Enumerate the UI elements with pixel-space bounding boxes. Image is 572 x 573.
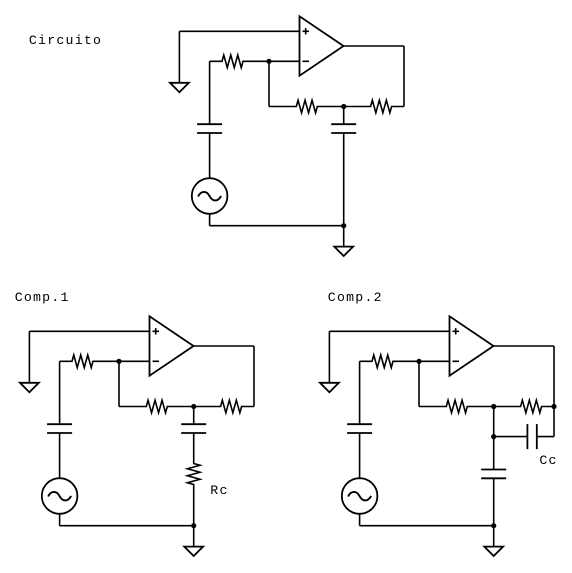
wire output U2 <box>194 345 255 347</box>
svg-text:Cc: Cc <box>539 453 557 468</box>
wire output U3 <box>494 345 555 347</box>
capacitor C1 U1 <box>197 123 222 125</box>
node inverting input U2 <box>116 359 121 364</box>
wire C2 to rail U3 <box>493 478 495 525</box>
wire inverting node down U3 <box>418 361 420 406</box>
wire feedback right up U3 <box>553 346 555 407</box>
wire bottom rail U1 <box>210 225 344 227</box>
wire source to rail U1 <box>209 214 211 226</box>
wire tap to Cc <box>494 436 528 438</box>
wire C1 to source U2 <box>59 433 61 478</box>
resistor R2 (feedback left) U2 <box>119 400 194 413</box>
wire node to C2 U2 <box>193 407 195 425</box>
node inverting input U1 <box>266 59 271 64</box>
wire tap to C2 U3 <box>493 437 495 470</box>
wire non-inverting input U2 <box>29 330 149 332</box>
ground (bottom) U1 <box>334 247 353 256</box>
svg-text:Comp.2: Comp.2 <box>328 290 383 305</box>
resistor R1 (input) U3 <box>360 355 419 368</box>
wire inverting node down U1 <box>268 61 270 106</box>
resistor R3 (feedback right) U2 <box>194 400 254 413</box>
node inverting input U3 <box>416 359 421 364</box>
op-amp U2 <box>150 316 194 375</box>
wire bottom rail U2 <box>60 525 194 527</box>
wire source to rail U2 <box>59 514 61 526</box>
capacitor C2 U2 <box>181 423 206 425</box>
capacitor C1 U3 <box>347 423 372 425</box>
ground (non-inverting input) U1 <box>170 83 189 92</box>
capacitor C2 U1 <box>331 123 356 125</box>
wire node to C2 U1 <box>343 107 345 125</box>
wire R1 to C1 U2 <box>59 361 61 424</box>
wire feedback right up U1 <box>403 46 405 107</box>
source V3 (sine) <box>342 478 378 514</box>
wire inverting input U2 <box>119 360 150 362</box>
wire non-inverting input U3 <box>329 330 449 332</box>
wire ground drop U3 <box>328 331 330 383</box>
wire bottom rail U3 <box>360 525 494 527</box>
wire R1 to C1 U3 <box>359 361 361 424</box>
wire R1 to C1 U1 <box>209 61 211 124</box>
wire C1 to source U1 <box>209 133 211 178</box>
node bottom rail U1 <box>341 223 346 228</box>
wire inverting input U3 <box>419 360 450 362</box>
ground (non-inverting input) U3 <box>320 383 339 392</box>
wire C2 to rail U1 <box>343 133 345 226</box>
node Cc tap U3 <box>491 434 496 439</box>
node feedback mid U3 <box>491 404 496 409</box>
op-amp U3 <box>450 316 494 375</box>
wire output U1 <box>344 45 405 47</box>
wire inverting node down U2 <box>118 361 120 406</box>
node feedback mid U2 <box>191 404 196 409</box>
capacitor Cc <box>526 424 528 449</box>
ground (bottom) U2 <box>184 547 203 556</box>
wire node down U3 <box>493 407 495 437</box>
ground (non-inverting input) U2 <box>20 383 39 392</box>
node bottom rail U2 <box>191 523 196 528</box>
wire rail to ground U2 <box>193 526 195 547</box>
resistor R1 (input) U1 <box>210 55 269 68</box>
resistor Rc <box>187 433 200 526</box>
svg-text:Circuito: Circuito <box>29 33 102 48</box>
ground (bottom) U3 <box>484 547 503 556</box>
source V1 (sine) <box>192 178 228 214</box>
wire ground drop U2 <box>28 331 30 383</box>
node feedback mid U1 <box>341 104 346 109</box>
wire inverting input U1 <box>269 60 300 62</box>
capacitor C2 U3 <box>481 469 506 471</box>
node feedback right U3 <box>551 404 556 409</box>
resistor R1 (input) U2 <box>60 355 119 368</box>
wire right vertical Cc up <box>553 407 555 437</box>
wire source to rail U3 <box>359 514 361 526</box>
svg-text:Comp.1: Comp.1 <box>15 290 70 305</box>
wire Cc to right vertical <box>537 436 554 438</box>
resistor R2 (feedback left) U3 <box>419 400 494 413</box>
wire C1 to source U3 <box>359 433 361 478</box>
svg-text:Rc: Rc <box>210 483 228 498</box>
wire non-inverting input U1 <box>179 30 299 32</box>
wire rail to ground U3 <box>493 526 495 547</box>
source V2 (sine) <box>42 478 78 514</box>
capacitor C1 U2 <box>47 423 72 425</box>
node bottom rail U3 <box>491 523 496 528</box>
resistor R3 (feedback right) U3 <box>494 400 554 413</box>
resistor R2 (feedback left) U1 <box>269 100 344 113</box>
wire rail to ground U1 <box>343 226 345 247</box>
op-amp U1 <box>300 16 344 75</box>
wire ground drop U1 <box>178 31 180 83</box>
resistor R3 (feedback right) U1 <box>344 100 404 113</box>
wire feedback right up U2 <box>253 346 255 407</box>
